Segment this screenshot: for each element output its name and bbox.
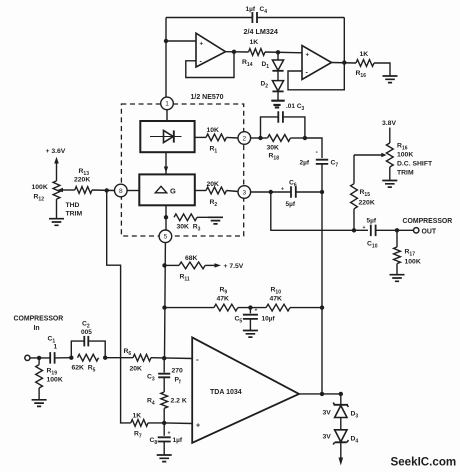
capacitor C3 .01 to ground xyxy=(271,101,284,108)
svg-text:30K R3: 30K R3 xyxy=(177,224,201,233)
diode D2 xyxy=(272,81,283,92)
svg-text:1µf: 1µf xyxy=(246,6,256,13)
resistor R7 1K xyxy=(131,420,148,427)
resistor R5 62K xyxy=(78,354,99,361)
svg-text:R15: R15 xyxy=(360,189,371,198)
wire C8 to ground xyxy=(163,442,165,455)
svg-text:2: 2 xyxy=(242,135,246,142)
resistor R6 20K xyxy=(133,354,151,361)
node R3 junction xyxy=(164,215,168,219)
svg-text:R16: R16 xyxy=(356,70,367,79)
wire rail to R11 xyxy=(165,264,180,266)
wire R15 to output row xyxy=(353,209,355,231)
wire C1 to C2 loop xyxy=(55,357,72,359)
capacitor C6 5uF xyxy=(291,186,296,198)
svg-text:100K: 100K xyxy=(32,184,48,191)
node U2 output xyxy=(342,60,346,64)
pin 1 of NE570 xyxy=(161,97,174,110)
resistor R4 2.2K xyxy=(161,392,168,408)
wire node B to noninverting input xyxy=(164,422,192,425)
svg-text:R1: R1 xyxy=(210,146,218,155)
resistor R19 100K xyxy=(36,365,43,388)
svg-text:R11: R11 xyxy=(180,274,190,283)
node pin 8 branch xyxy=(105,188,109,192)
capacitor C5 10uF xyxy=(243,315,258,319)
wire long vertical feedback rail xyxy=(321,192,323,394)
wire rectifier to R1 xyxy=(195,136,206,138)
arrowhead +7.5V supply xyxy=(215,263,222,267)
svg-text:D2: D2 xyxy=(261,81,269,90)
svg-text:2/4 LM324: 2/4 LM324 xyxy=(244,27,278,36)
capacitor C1 xyxy=(50,352,54,364)
svg-text:C3: C3 xyxy=(147,374,155,383)
svg-text:5µf: 5µf xyxy=(367,218,377,225)
arrowhead +3.6V supply xyxy=(54,157,59,164)
wire node A down to C3f xyxy=(163,358,165,372)
wire to U1 noninverting input xyxy=(166,40,196,42)
resistor R11 68K xyxy=(179,262,205,269)
resistor R14 1K xyxy=(249,49,266,56)
ground at C8 xyxy=(157,455,172,462)
wire top rail right of C4 xyxy=(257,17,344,19)
wire pin 3 to C6 xyxy=(251,191,291,193)
node junction opamp U1 + input tap xyxy=(164,39,168,43)
wire supply to pot R16 xyxy=(389,128,391,144)
svg-text:.01 C3: .01 C3 xyxy=(286,103,305,112)
svg-text:C4: C4 xyxy=(260,6,268,15)
node C2 loop right xyxy=(103,356,107,360)
wire supply to pot R12 xyxy=(56,163,58,181)
wire pin 2 to R18 node xyxy=(251,137,261,139)
node TDA output on rail xyxy=(320,392,324,396)
svg-text:5: 5 xyxy=(164,234,168,241)
svg-text:C7: C7 xyxy=(331,160,339,169)
svg-text:47K: 47K xyxy=(270,296,283,303)
wire R12 wiper to R13 xyxy=(60,189,75,191)
svg-text:220K: 220K xyxy=(359,200,375,207)
svg-text:R10: R10 xyxy=(271,287,282,296)
svg-text:270: 270 xyxy=(172,368,184,375)
wire C6 left bypass down xyxy=(271,192,354,230)
node A inverting input xyxy=(162,356,166,360)
wire node to R17 xyxy=(396,230,398,247)
wire R5 to R6 xyxy=(105,357,133,359)
svg-text:D3: D3 xyxy=(351,411,359,420)
resistor R15 220K xyxy=(351,184,358,209)
svg-text:R16: R16 xyxy=(397,143,408,152)
svg-text:R9: R9 xyxy=(220,287,228,296)
delta-G label xyxy=(155,186,176,195)
wire R17 to ground xyxy=(396,264,398,275)
svg-text:R12: R12 xyxy=(34,194,45,203)
resistor R18 30K xyxy=(268,135,291,142)
svg-text:+ 3.6V: + 3.6V xyxy=(46,148,66,155)
wire R1 to pin 2 xyxy=(227,136,239,139)
svg-text:5µf: 5µf xyxy=(286,201,296,208)
wire pin 8 to delta-G xyxy=(127,190,139,192)
capacitor C8 1uF xyxy=(158,437,171,441)
wire U1 feedback loop xyxy=(186,52,234,78)
svg-text:R17: R17 xyxy=(405,249,416,258)
wire C parallel loop of R18 xyxy=(261,117,279,138)
svg-text:G: G xyxy=(170,186,176,195)
svg-text:C5: C5 xyxy=(235,316,243,325)
rectifier block of NE570 xyxy=(140,121,194,152)
node R10 right on rail xyxy=(320,305,324,309)
pin 2 of NE570 xyxy=(238,132,251,145)
wire D1 to D2 xyxy=(277,71,279,81)
resistor R1 10K xyxy=(206,134,227,141)
svg-text:1/2 NE570: 1/2 NE570 xyxy=(191,94,224,101)
wire output row to C10 xyxy=(354,229,368,231)
svg-text:-: - xyxy=(316,149,319,156)
svg-text:+: + xyxy=(196,423,200,430)
wire top rail left of C4 xyxy=(166,17,252,19)
wire U2 output up to top rail xyxy=(343,18,345,63)
capacitor C4 1uF xyxy=(252,12,257,23)
wire C3f to R4 xyxy=(163,377,165,392)
resistor R10 47K xyxy=(266,304,290,311)
wire D2 to C3 xyxy=(277,91,279,100)
svg-text:30K: 30K xyxy=(267,145,280,152)
svg-text:C10: C10 xyxy=(367,241,378,250)
svg-text:TRIM: TRIM xyxy=(397,170,414,177)
capacitor C2 .005 xyxy=(84,336,88,347)
wire C5 to ground xyxy=(249,319,251,330)
svg-text:COMPRESSOR: COMPRESSOR xyxy=(14,316,64,323)
svg-text:R13: R13 xyxy=(79,168,90,177)
op-amp TDA 1034 xyxy=(192,337,299,442)
wire to R18 xyxy=(261,137,268,139)
wire R10 to feedback rail xyxy=(290,307,322,309)
svg-text:+: + xyxy=(363,225,366,231)
wire R13 to pin 8 xyxy=(92,189,115,192)
wire delta-G bottom to pin 5 xyxy=(165,205,167,230)
node R17 junction xyxy=(395,228,399,232)
capacitor C3 270pF xyxy=(158,374,170,378)
node D1 top junction xyxy=(276,50,280,54)
wire R16 to ground xyxy=(374,63,390,76)
potentiometer R12 100K xyxy=(53,181,60,199)
node R15 bottom xyxy=(352,228,356,232)
wire C parallel loop right side xyxy=(283,117,305,138)
wiper arrow of R12 xyxy=(58,188,64,192)
arrowhead negative supply xyxy=(339,458,344,466)
wire R11 to supply arrow xyxy=(205,264,216,266)
svg-text:+ 7.5V: + 7.5V xyxy=(224,263,244,270)
op-amp U2 (1/4 LM324) xyxy=(302,46,332,80)
zener diode D3 3V xyxy=(333,403,348,418)
resistor R16 1K xyxy=(356,60,374,67)
node R19 junction xyxy=(37,356,41,360)
svg-text:+: + xyxy=(281,187,284,193)
svg-text:1K: 1K xyxy=(250,39,259,46)
wire U2 feedback loop xyxy=(288,63,344,90)
svg-text:3V: 3V xyxy=(323,410,332,417)
ground at R3 xyxy=(208,217,223,224)
wire C7 to C6 right node xyxy=(321,164,323,192)
node U1 output xyxy=(232,50,236,54)
svg-text:100K: 100K xyxy=(405,259,421,266)
svg-text:8: 8 xyxy=(119,188,123,195)
wire rectifier to delta-G cell xyxy=(165,152,167,174)
svg-text:R4: R4 xyxy=(147,398,155,407)
wire R19 to ground xyxy=(38,388,40,399)
svg-text:100K: 100K xyxy=(47,377,63,384)
node C6 right xyxy=(320,190,324,194)
capacitor C10 5uF xyxy=(371,225,376,237)
svg-text:3.8V: 3.8V xyxy=(382,120,396,127)
node C6 left xyxy=(269,190,273,194)
wire in terminal to C1 xyxy=(30,357,50,359)
svg-text:COMPRESSOR: COMPRESSOR xyxy=(403,218,453,225)
svg-text:+: + xyxy=(200,41,204,47)
resistor R17 100K xyxy=(394,247,401,264)
svg-text:1K: 1K xyxy=(360,51,369,58)
wire R3 to ground xyxy=(197,216,215,218)
ground at R16 pot xyxy=(382,181,397,188)
wire pin 8 node down to R7 row xyxy=(107,190,131,423)
wiper arrow of R16 pot xyxy=(381,153,386,157)
wire left vertical from top rail to pin 1 xyxy=(165,18,167,98)
svg-text:3: 3 xyxy=(242,189,246,196)
wire U1 output xyxy=(226,51,249,53)
diode symbol inside rectifier block xyxy=(150,130,182,142)
wire delta-G to R2 xyxy=(195,190,206,192)
wire node B down to C8 xyxy=(163,423,165,436)
wire C6 to right node xyxy=(296,191,322,193)
wire U2 output xyxy=(332,62,357,65)
svg-text:1µf: 1µf xyxy=(173,437,183,444)
ground at R19 xyxy=(32,400,47,407)
wire pot R16 to ground xyxy=(389,167,391,180)
op-amp U1 (1/4 LM324) xyxy=(196,33,226,67)
ground at C5 xyxy=(243,331,258,338)
svg-text:20K: 20K xyxy=(130,366,143,373)
terminal COMPRESSOR IN xyxy=(25,355,30,360)
svg-text:D.C. SHIFT: D.C. SHIFT xyxy=(397,161,433,168)
svg-text:1K: 1K xyxy=(133,413,142,420)
diode D1 xyxy=(272,60,283,71)
pin 8 of NE570 xyxy=(115,184,128,197)
svg-text:THD: THD xyxy=(66,202,80,209)
wire C5 node down xyxy=(249,308,251,314)
svg-text:3V: 3V xyxy=(323,434,332,441)
terminal COMPRESSOR OUT xyxy=(414,228,419,233)
wire C2 loop right down xyxy=(88,341,105,358)
svg-text:TRIM: TRIM xyxy=(66,211,83,218)
node C5 junction xyxy=(248,305,252,309)
wire pin 1 to rectifier block xyxy=(166,110,168,121)
wire R7 to node B xyxy=(148,422,164,424)
svg-text:1: 1 xyxy=(54,344,58,351)
wire pot R12 to ground xyxy=(56,199,58,218)
wire C2 loop left up xyxy=(71,341,84,358)
capacitor C7 2uF xyxy=(316,160,328,164)
svg-text:R19: R19 xyxy=(47,368,58,377)
wire R4 to node B xyxy=(163,408,165,423)
wire U1 out node down to D1 xyxy=(277,52,279,60)
svg-text:+: + xyxy=(168,431,171,437)
node TDA output diode branch xyxy=(339,392,343,396)
wire pin 5 down rail xyxy=(164,243,167,359)
wire D3 to D4 xyxy=(340,418,342,430)
svg-text:+: + xyxy=(255,308,258,314)
svg-text:2µf: 2µf xyxy=(300,160,310,167)
ground at R17 xyxy=(390,275,405,282)
wire wiper to R15 xyxy=(354,154,382,156)
svg-text:100K: 100K xyxy=(397,152,413,159)
wire R6 to inverting input xyxy=(151,357,192,360)
svg-text:SeekIC.com: SeekIC.com xyxy=(391,456,457,469)
wire node to R19 xyxy=(38,358,40,365)
potentiometer R16 100K DC shift xyxy=(386,143,393,167)
wire R14 to U2 input xyxy=(265,51,302,54)
svg-text:OUT: OUT xyxy=(422,228,437,235)
svg-text:D1: D1 xyxy=(262,61,270,70)
svg-text:R2: R2 xyxy=(210,199,218,208)
resistor R13 220K xyxy=(75,187,92,194)
svg-text:C8: C8 xyxy=(150,437,158,446)
svg-text:C2: C2 xyxy=(82,321,90,330)
svg-text:TDA 1034: TDA 1034 xyxy=(210,389,242,396)
node R18 right xyxy=(303,136,307,140)
ground at R12 xyxy=(49,219,64,226)
resistor R9 47K xyxy=(214,304,238,311)
node R18 left xyxy=(258,136,262,140)
wire wiper line down to R15 xyxy=(353,155,355,184)
wire TDA output xyxy=(299,393,341,395)
node B noninverting input xyxy=(162,421,166,425)
svg-text:68K: 68K xyxy=(185,255,198,262)
svg-text:220K: 220K xyxy=(74,177,90,184)
wire R18 to right node xyxy=(291,137,305,139)
wire R2 to pin 3 xyxy=(227,191,239,192)
svg-text:10µf: 10µf xyxy=(262,316,276,323)
NE570 dashed outline xyxy=(121,104,243,236)
svg-text:005: 005 xyxy=(81,329,92,336)
wire C10 to out terminal xyxy=(376,229,413,231)
svg-text:R18: R18 xyxy=(269,153,280,162)
svg-text:In: In xyxy=(34,325,40,332)
wire D4 to negative rail xyxy=(340,442,342,459)
svg-text:R6: R6 xyxy=(124,348,132,357)
svg-text:R14: R14 xyxy=(242,59,253,68)
wire R9 to C5 node xyxy=(238,307,266,309)
svg-text:47K: 47K xyxy=(217,296,230,303)
capacitor across R18 xyxy=(278,111,283,123)
svg-text:1: 1 xyxy=(165,101,169,108)
zener diode D4 3V xyxy=(333,430,348,445)
node R11 junction xyxy=(162,263,166,267)
svg-text:+: + xyxy=(306,53,310,59)
pin 5 of NE570 xyxy=(159,230,172,243)
node R9 row left xyxy=(162,305,166,309)
svg-text:62K R5: 62K R5 xyxy=(72,365,96,374)
wire rail to R9 xyxy=(165,307,214,309)
svg-text:Pf: Pf xyxy=(175,377,182,386)
arrowhead into delta-G cell xyxy=(164,167,168,173)
svg-text:R7: R7 xyxy=(134,431,142,440)
wire output to D3 xyxy=(340,394,342,405)
svg-text:10K: 10K xyxy=(207,127,220,134)
node C2 loop left xyxy=(69,356,73,360)
resistor R2 20K xyxy=(206,187,227,194)
resistor R3 30K xyxy=(174,214,197,221)
pin 3 of NE570 xyxy=(238,186,251,199)
svg-text:-: - xyxy=(196,355,199,364)
delta-G variable gain cell of NE570 xyxy=(139,174,195,205)
svg-text:D4: D4 xyxy=(351,436,359,445)
ground at R16 xyxy=(383,76,398,83)
svg-text:2.2 K: 2.2 K xyxy=(171,398,187,405)
wire R18 node to C7 xyxy=(305,138,322,158)
